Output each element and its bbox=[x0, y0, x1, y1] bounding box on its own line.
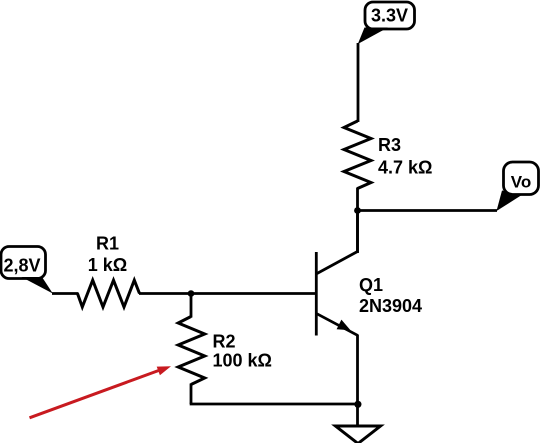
svg-text:2,8V: 2,8V bbox=[3, 256, 40, 276]
wire R2 to bottom rail bbox=[190, 384, 193, 405]
resistor R3 bbox=[344, 121, 371, 189]
Q1 value label bbox=[359, 275, 422, 316]
wire R1 to base bbox=[139, 292, 316, 295]
svg-text:100 kΩ: 100 kΩ bbox=[213, 351, 272, 371]
svg-text:3.3V: 3.3V bbox=[371, 6, 408, 26]
node collector junction bbox=[354, 207, 361, 214]
svg-text:4.7 kΩ: 4.7 kΩ bbox=[378, 158, 432, 178]
ground bbox=[336, 426, 381, 443]
node emitter-rail junction bbox=[354, 401, 361, 408]
svg-text:2N3904: 2N3904 bbox=[359, 296, 422, 316]
wire base node to R2 bbox=[190, 294, 193, 318]
svg-text:R3: R3 bbox=[378, 135, 401, 155]
transistor Q1 bbox=[316, 252, 357, 336]
wire 3.3V to R3 bbox=[357, 43, 360, 122]
resistor R1 bbox=[78, 280, 140, 307]
R3 value label bbox=[378, 135, 432, 178]
node base junction bbox=[188, 290, 195, 297]
annotation red arrow bbox=[30, 366, 172, 418]
svg-text:R1: R1 bbox=[96, 234, 119, 254]
resistor R2 bbox=[178, 317, 205, 385]
svg-text:R2: R2 bbox=[213, 332, 236, 352]
svg-text:1 kΩ: 1 kΩ bbox=[88, 255, 127, 275]
svg-text:Vo: Vo bbox=[511, 173, 531, 192]
R1 value label bbox=[88, 234, 127, 276]
wire bottom rail bbox=[190, 403, 358, 406]
wire emitter to ground bbox=[356, 335, 359, 427]
wire 2,8V to R1 bbox=[52, 292, 79, 295]
net label 3.3V bbox=[358, 2, 415, 44]
wire collector node to Vo bbox=[358, 209, 498, 212]
net label Vo bbox=[497, 162, 539, 211]
net label 2,8V bbox=[1, 247, 53, 294]
wire collector vertical bbox=[356, 209, 359, 253]
R2 value label bbox=[213, 332, 272, 371]
wire R3 to collector node bbox=[356, 188, 359, 254]
svg-text:Q1: Q1 bbox=[359, 275, 383, 295]
